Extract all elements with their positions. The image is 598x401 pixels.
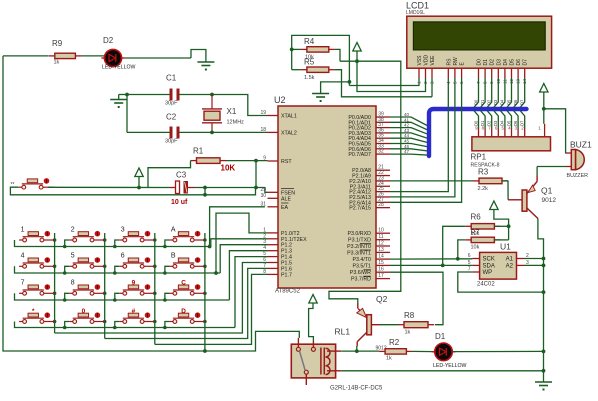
wire LCD D2 to RP1 bbox=[487, 78, 492, 107]
push button 6 bbox=[119, 265, 123, 267]
push button * bbox=[19, 321, 23, 323]
wire RST riser to C3 line bbox=[255, 161, 257, 188]
keypad row 2 wire bbox=[15, 266, 221, 273]
wire R7 left to SCK bbox=[458, 240, 465, 259]
svg-text:10 uf: 10 uf bbox=[171, 199, 188, 206]
svg-text:5: 5 bbox=[452, 81, 457, 84]
transistor Q1 9012 PNP bbox=[522, 190, 527, 211]
svg-text:ALE: ALE bbox=[281, 196, 291, 202]
pin P0.1/AD1 (38) bbox=[376, 121, 390, 123]
wire R6 right stub bbox=[494, 225, 508, 227]
svg-text:P3.3/INT1: P3.3/INT1 bbox=[347, 250, 371, 256]
svg-text:31: 31 bbox=[260, 201, 266, 207]
svg-text:Q1: Q1 bbox=[541, 186, 553, 196]
LCD pin D2 (9) bbox=[491, 68, 493, 78]
pin P3.6/WR (16) bbox=[376, 271, 390, 273]
pin P1.6 (7) bbox=[268, 267, 279, 269]
svg-text:VEE: VEE bbox=[430, 55, 436, 66]
LCD pin RS (4) bbox=[447, 68, 449, 78]
wire LCD VSS to ground rail bbox=[349, 78, 419, 86]
pin XTAL2 (18) bbox=[268, 131, 279, 133]
svg-text:R3: R3 bbox=[478, 168, 489, 177]
svg-text:RS: RS bbox=[446, 58, 452, 66]
pin P3.7/RD (17) bbox=[376, 278, 390, 280]
svg-text:10: 10 bbox=[378, 228, 384, 234]
pin P2.7/A15 (28) bbox=[376, 207, 390, 209]
svg-text:12: 12 bbox=[378, 241, 384, 247]
pin P0.5/AD5 (34) bbox=[376, 143, 390, 145]
pin EA (31) bbox=[268, 206, 279, 208]
svg-text:41: 41 bbox=[404, 117, 410, 122]
svg-text:Q2: Q2 bbox=[376, 294, 388, 304]
svg-text:4: 4 bbox=[446, 81, 451, 84]
wire R9 to D2 bbox=[81, 55, 104, 57]
svg-text:1.5k: 1.5k bbox=[304, 75, 315, 81]
svg-text:3: 3 bbox=[121, 226, 125, 233]
wire P0.0 to bus bbox=[390, 117, 429, 127]
svg-text:10k: 10k bbox=[471, 231, 480, 237]
LCD pin D7 (14) bbox=[524, 68, 526, 78]
power terminal (RP1/buzzer VCC) bbox=[540, 84, 548, 93]
svg-text:1k: 1k bbox=[405, 330, 411, 336]
LCD pin D3 (10) bbox=[497, 68, 499, 78]
svg-text:D4: D4 bbox=[500, 99, 505, 105]
svg-text:A1: A1 bbox=[506, 257, 514, 263]
svg-text:RST: RST bbox=[281, 159, 292, 165]
svg-text:LED-YELLOW: LED-YELLOW bbox=[433, 363, 467, 369]
svg-text:30: 30 bbox=[260, 193, 266, 199]
svg-text:14: 14 bbox=[378, 254, 384, 260]
wire LCD D5 to RP1 bbox=[507, 78, 512, 107]
ground (bottom right) bbox=[535, 381, 552, 383]
svg-text:P3.1/TXD: P3.1/TXD bbox=[348, 238, 371, 244]
svg-text:D1: D1 bbox=[483, 59, 489, 66]
wire C2 rail to XTAL2 bbox=[126, 95, 128, 133]
wire P2 to LCD control bbox=[390, 78, 455, 197]
svg-text:RW: RW bbox=[453, 57, 459, 66]
pin P2.2/A10 (23) bbox=[376, 180, 390, 182]
wire button jog bbox=[115, 266, 120, 273]
svg-text:P3.0/RXD: P3.0/RXD bbox=[347, 231, 371, 237]
svg-text:5: 5 bbox=[468, 260, 471, 266]
U1 pin SDA (5) bbox=[472, 264, 479, 266]
U1 pin A1 (2) bbox=[517, 258, 525, 260]
svg-text:42: 42 bbox=[404, 123, 410, 128]
svg-text:D1: D1 bbox=[435, 332, 446, 341]
svg-text:RP1: RP1 bbox=[471, 153, 487, 162]
svg-text:G2RL-14B-CF-DC5: G2RL-14B-CF-DC5 bbox=[330, 386, 383, 392]
svg-text:D5: D5 bbox=[506, 99, 511, 105]
svg-text:17: 17 bbox=[378, 273, 384, 279]
wire button jog bbox=[115, 293, 120, 300]
wire ground rail / R4R5 top rail bbox=[292, 35, 350, 85]
push button 3 bbox=[119, 239, 123, 241]
svg-text:R8: R8 bbox=[404, 311, 415, 320]
wire A2 to rail bbox=[524, 264, 544, 266]
wire C3 line branch bbox=[204, 188, 206, 195]
svg-text:13: 13 bbox=[378, 247, 384, 253]
wire LCD D0 to RP1 bbox=[474, 78, 479, 107]
wire P0.1 to bus bbox=[390, 122, 429, 130]
svg-text:D: D bbox=[181, 308, 186, 315]
push button 4 bbox=[19, 265, 23, 267]
wire LCD D4 to RP1 bbox=[500, 78, 505, 107]
relay coil bbox=[320, 348, 322, 375]
svg-text:C2: C2 bbox=[166, 113, 177, 122]
wire C1 to XTAL1 bbox=[180, 95, 268, 116]
svg-text:2.2k: 2.2k bbox=[478, 186, 489, 192]
svg-text:BUZZER: BUZZER bbox=[567, 173, 589, 179]
push button 7 bbox=[19, 292, 23, 294]
ground (crystal rail) bbox=[119, 94, 127, 96]
pin P0.6/AD6 (33) bbox=[376, 148, 390, 150]
wire WP to ground rail bbox=[458, 272, 544, 292]
LCD pin D4 (11) bbox=[504, 68, 506, 78]
svg-text:P3.5/T1: P3.5/T1 bbox=[352, 263, 371, 269]
svg-text:44: 44 bbox=[404, 133, 410, 138]
svg-text:P3.2/INT0: P3.2/INT0 bbox=[347, 244, 371, 250]
wire R9 to left rail bbox=[3, 55, 49, 57]
push button D bbox=[169, 321, 173, 323]
svg-text:4: 4 bbox=[21, 253, 25, 260]
svg-text:P3.7/RD: P3.7/RD bbox=[351, 277, 371, 283]
pin P0.4/AD4 (35) bbox=[376, 137, 390, 139]
LCD pin RW (5) bbox=[454, 68, 456, 78]
LCD pin D1 (8) bbox=[484, 68, 486, 78]
wire R5 left bbox=[292, 69, 301, 71]
svg-text:A: A bbox=[171, 226, 176, 233]
svg-text:6: 6 bbox=[459, 81, 464, 84]
push button 1 bbox=[19, 239, 23, 241]
pin RST (9) bbox=[268, 160, 279, 162]
crystal X1 12MHz bbox=[202, 108, 222, 110]
svg-text:U2: U2 bbox=[274, 95, 286, 105]
pin P2.6/A14 (27) bbox=[376, 201, 390, 203]
wire R4 left bbox=[292, 48, 301, 50]
svg-text:D3: D3 bbox=[496, 59, 502, 66]
svg-text:15: 15 bbox=[378, 260, 384, 266]
wire button jog bbox=[165, 293, 170, 300]
wire P0.7 to bus bbox=[390, 154, 429, 155]
pin P3.5/T1 (15) bbox=[376, 264, 390, 266]
svg-text:#: # bbox=[132, 308, 136, 315]
svg-text:VSS: VSS bbox=[417, 55, 423, 66]
svg-text:6: 6 bbox=[121, 253, 125, 260]
U1 pin SCK (6) bbox=[472, 258, 479, 260]
push button 5 bbox=[69, 265, 73, 267]
U1 pin A2 (3) bbox=[517, 264, 525, 266]
wire keypad column 3 to P1 bbox=[155, 274, 268, 344]
LCD pin D6 (13) bbox=[517, 68, 519, 78]
wire VCC to buzzer bbox=[544, 109, 567, 153]
wire P3.4 to SCK bbox=[390, 258, 472, 260]
LCD pin VSS (1) bbox=[418, 68, 420, 78]
svg-text:46: 46 bbox=[404, 144, 410, 149]
keypad column 2 wire bbox=[104, 233, 106, 339]
resistor pack RP1 RESPACK-8 bbox=[472, 137, 551, 151]
wire LCD VDD to VCC bbox=[357, 52, 426, 92]
svg-text:EA: EA bbox=[281, 205, 289, 211]
svg-text:P2.7/A15: P2.7/A15 bbox=[349, 206, 371, 212]
pin P2.1/A9 (22) bbox=[376, 175, 390, 177]
power terminal (Q2/relay) bbox=[309, 295, 317, 304]
keypad column 3 wire bbox=[154, 233, 156, 344]
power terminal (LCD VDD) bbox=[353, 43, 361, 52]
wire button jog bbox=[65, 322, 70, 328]
svg-text:C1: C1 bbox=[166, 74, 177, 83]
svg-text:30pF: 30pF bbox=[165, 139, 178, 145]
wire button jog bbox=[165, 266, 170, 273]
svg-text:D2: D2 bbox=[487, 99, 492, 105]
svg-text:32: 32 bbox=[378, 149, 384, 155]
push button C bbox=[169, 292, 173, 294]
svg-text:1k: 1k bbox=[386, 356, 392, 362]
wire keypad row to P1 bbox=[220, 245, 267, 273]
svg-text:10k: 10k bbox=[471, 245, 480, 251]
wire R3 to Q1 base bbox=[507, 181, 509, 200]
wire C1 rail bbox=[127, 94, 170, 96]
svg-text:18: 18 bbox=[260, 127, 266, 133]
svg-text:R4: R4 bbox=[304, 37, 315, 46]
wire right rail down to ground bbox=[543, 259, 545, 383]
wire button jog bbox=[165, 240, 170, 247]
wire R2 to D1 bbox=[412, 350, 434, 352]
push button A bbox=[169, 239, 173, 241]
wire R1 left return bbox=[148, 161, 191, 188]
wire D1 to right rail bbox=[453, 350, 544, 352]
svg-text:D4: D4 bbox=[503, 59, 509, 66]
svg-text:16: 16 bbox=[378, 267, 384, 273]
LCD pin VDD (2) bbox=[425, 68, 427, 78]
wire button to C3 line bbox=[48, 186, 170, 188]
svg-text:28: 28 bbox=[378, 202, 384, 208]
wire P0.3 to bus bbox=[390, 133, 429, 139]
svg-text:SDA: SDA bbox=[483, 264, 495, 270]
wire keypad rail to P1.0 bbox=[216, 213, 268, 273]
wire LCD D6 to RP1 bbox=[514, 78, 519, 107]
svg-text:D2: D2 bbox=[490, 59, 496, 66]
wire Q1 collector to U1/A rail bbox=[538, 219, 544, 259]
svg-text:D5: D5 bbox=[510, 59, 516, 66]
svg-text:12MHz: 12MHz bbox=[227, 120, 245, 126]
wire P3.6 to R8 bbox=[390, 272, 443, 325]
wire button jog bbox=[115, 322, 120, 328]
wire keypad row to P1 bbox=[229, 251, 267, 300]
pin P2.0/A8 (21) bbox=[376, 169, 390, 171]
svg-text:VDD: VDD bbox=[424, 55, 430, 66]
svg-text:2: 2 bbox=[71, 226, 75, 233]
pin P3.3/INT1 (13) bbox=[376, 251, 390, 253]
svg-text:D1: D1 bbox=[480, 99, 485, 105]
push button B bbox=[169, 265, 173, 267]
svg-text:9: 9 bbox=[263, 156, 266, 162]
pin P3.4/T0 (14) bbox=[376, 258, 390, 260]
keypad column 4 wire bbox=[204, 233, 206, 344]
svg-text:SCK: SCK bbox=[483, 257, 495, 263]
svg-text:R1: R1 bbox=[193, 147, 204, 156]
svg-text:R5: R5 bbox=[304, 58, 315, 67]
pin P1.3 (4) bbox=[268, 250, 279, 252]
wire R6 left to SDA bbox=[443, 226, 466, 265]
push button 0 bbox=[69, 321, 73, 323]
wire VCC to R6 R7 right bbox=[494, 210, 509, 240]
svg-text:6: 6 bbox=[468, 253, 471, 259]
svg-text:47: 47 bbox=[404, 149, 410, 154]
keypad row 3 wire bbox=[15, 293, 230, 300]
bus (blue) to LCD data bbox=[429, 109, 527, 156]
keypad row 4 wire bbox=[15, 322, 236, 328]
svg-text:30pF: 30pF bbox=[165, 101, 178, 107]
wire LCD D3 to RP1 bbox=[494, 78, 499, 107]
relay blade bbox=[300, 351, 306, 371]
svg-text:LED-YELLOW: LED-YELLOW bbox=[102, 65, 136, 71]
svg-text:R6: R6 bbox=[471, 213, 482, 222]
pin P0.7/AD7 (32) bbox=[376, 153, 390, 155]
svg-text:B: B bbox=[171, 253, 176, 260]
wire D2 to ground bbox=[125, 57, 191, 59]
wire EA to keypad bbox=[210, 207, 265, 247]
RP1 pin 1 to VCC bbox=[544, 124, 546, 137]
svg-text:D0: D0 bbox=[477, 59, 483, 66]
pin P0.0/AD0 (39) bbox=[376, 116, 390, 118]
U1 pin WP (7) bbox=[472, 271, 479, 273]
wire button jog bbox=[115, 240, 120, 247]
pin P1.0/T2 (1) bbox=[268, 232, 279, 234]
svg-text:XTAL1: XTAL1 bbox=[281, 114, 297, 120]
svg-text:45: 45 bbox=[404, 139, 410, 144]
push button 2 bbox=[69, 239, 73, 241]
pin P1.4 (5) bbox=[268, 256, 279, 258]
svg-text:43: 43 bbox=[404, 128, 410, 133]
relay coil pins bbox=[327, 350, 341, 352]
svg-text:D0: D0 bbox=[473, 99, 478, 105]
push button 8 bbox=[69, 292, 73, 294]
wire Q2 base to R8 bbox=[371, 324, 380, 326]
wire P0.2 to bus bbox=[390, 128, 429, 135]
push button 9 bbox=[119, 292, 123, 294]
svg-text:C: C bbox=[181, 280, 186, 287]
wire P2.2 to R3 bbox=[390, 180, 473, 182]
wire buzzer to Q1 emitter bbox=[537, 166, 566, 168]
wire P0.5 to bus bbox=[390, 144, 429, 148]
svg-text:R9: R9 bbox=[52, 39, 63, 48]
svg-text:C3: C3 bbox=[176, 171, 187, 180]
pin P1.7 (8) bbox=[268, 273, 279, 275]
wire keypad column 4 to bottom rail bbox=[204, 344, 206, 351]
svg-text:LCD1: LCD1 bbox=[406, 1, 429, 11]
svg-text:D6: D6 bbox=[513, 99, 518, 105]
svg-text:P3.4/T0: P3.4/T0 bbox=[352, 257, 371, 263]
svg-text:AT89C52: AT89C52 bbox=[275, 289, 301, 295]
pin FSEN (29) bbox=[268, 191, 279, 193]
svg-text:5: 5 bbox=[71, 253, 75, 260]
svg-text:40: 40 bbox=[404, 112, 410, 117]
pin P3.1/TXD (11) bbox=[376, 239, 390, 241]
wire LCD D1 to RP1 bbox=[481, 78, 486, 107]
wire P0.6 to bus bbox=[390, 149, 429, 151]
wire VCC rail bbox=[329, 61, 401, 303]
svg-text:1: 1 bbox=[21, 226, 25, 233]
wire relay coil bottom rail bbox=[341, 370, 543, 372]
svg-text:A2: A2 bbox=[506, 264, 514, 270]
svg-text:11: 11 bbox=[378, 234, 383, 240]
wire P2 to LCD control bbox=[390, 78, 462, 202]
svg-text:19: 19 bbox=[260, 110, 266, 116]
wire C3 to RST node and FSEN bbox=[194, 187, 256, 189]
svg-text:P3.6/WR: P3.6/WR bbox=[350, 270, 371, 276]
wire P0.4 to bus bbox=[390, 138, 429, 143]
pin P0.3/AD3 (36) bbox=[376, 132, 390, 134]
pin P3.0/RXD (10) bbox=[376, 232, 390, 234]
wire keypad column 1 to P1 bbox=[55, 263, 268, 334]
LCD pin D5 (12) bbox=[511, 68, 513, 78]
pin P0.2/AD2 (37) bbox=[376, 127, 390, 129]
wire button jog bbox=[65, 240, 70, 247]
svg-text:WP: WP bbox=[483, 270, 493, 276]
svg-text:D7: D7 bbox=[523, 59, 529, 66]
wire P2 to LCD control bbox=[390, 78, 448, 192]
wire R4 right to VCC rail bbox=[335, 49, 340, 61]
svg-text:X1: X1 bbox=[227, 107, 237, 116]
power terminal (R6/R7 VCC) bbox=[490, 201, 498, 210]
pin P1.1/T2EX (2) bbox=[268, 238, 279, 240]
pin P1.2 (3) bbox=[268, 244, 279, 246]
svg-text:D2: D2 bbox=[103, 36, 114, 45]
svg-text:XTAL2: XTAL2 bbox=[281, 130, 297, 136]
LCD pin VEE (3) bbox=[431, 68, 433, 78]
svg-text:RL1: RL1 bbox=[335, 327, 351, 337]
keypad column 1 wire bbox=[54, 233, 56, 333]
svg-text:9012: 9012 bbox=[542, 197, 557, 204]
power terminal (reset VCC) bbox=[135, 168, 143, 177]
wire R1 right to RST bbox=[226, 160, 268, 162]
wire Q2 collector to relay coil bbox=[356, 346, 358, 351]
svg-text:9: 9 bbox=[132, 280, 136, 287]
pin P2.3/A11 (24) bbox=[376, 185, 390, 187]
wire relay coil top to Q2/R2 bbox=[341, 350, 379, 352]
ground (mid top) bbox=[312, 93, 329, 95]
pin ALE (30) bbox=[268, 197, 279, 199]
wire button jog bbox=[65, 293, 70, 300]
svg-text:BUZ1: BUZ1 bbox=[570, 140, 592, 150]
svg-text:D3: D3 bbox=[493, 99, 498, 105]
wire keypad row to P1 bbox=[235, 257, 268, 328]
push button # bbox=[119, 321, 123, 323]
svg-text:24C02: 24C02 bbox=[477, 282, 495, 288]
svg-text:10K: 10K bbox=[221, 164, 236, 173]
wire button jog bbox=[65, 266, 70, 273]
wire keypad column 2 to P1 bbox=[105, 268, 268, 338]
svg-text:0: 0 bbox=[82, 308, 86, 315]
pin P2.4/A12 (25) bbox=[376, 191, 390, 193]
svg-text:LMD16L: LMD16L bbox=[406, 10, 425, 16]
ground (top-left near D2) bbox=[197, 61, 214, 63]
wire left rail from R9 to keypad bottom bbox=[3, 56, 299, 351]
svg-text:U1: U1 bbox=[500, 242, 511, 252]
wire R5 right to LCD VEE bbox=[335, 70, 432, 97]
svg-text:P0.7/AD7: P0.7/AD7 bbox=[348, 152, 371, 158]
wire P3.5 to SDA bbox=[390, 264, 472, 266]
svg-text:R2: R2 bbox=[389, 338, 400, 347]
wire button-left detour to RST node bbox=[10, 187, 255, 195]
LCD pin D0 (7) bbox=[478, 68, 480, 78]
wire LCD D7 to RP1 bbox=[520, 78, 525, 107]
pin P2.5/A13 (26) bbox=[376, 196, 390, 198]
keypad row 1 wire bbox=[15, 240, 211, 247]
pin P3.2/INT0 (12) bbox=[376, 245, 390, 247]
svg-text:D7: D7 bbox=[520, 99, 525, 105]
svg-text:D6: D6 bbox=[516, 59, 522, 66]
